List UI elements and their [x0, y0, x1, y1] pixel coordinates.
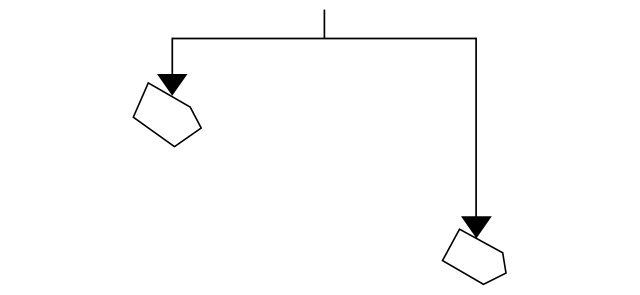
- arrowhead: right arrow: [461, 216, 492, 238]
- node: right pentagon (rotated off-page connector): [443, 229, 507, 284]
- wire: horizontal bus: [172, 38, 477, 40]
- wire: right drop: [475, 38, 477, 218]
- wire: left drop: [171, 38, 173, 76]
- arrowhead: left arrow: [157, 74, 188, 96]
- wire: top vertical stub: [323, 10, 325, 39]
- node: left pentagon (rotated off-page connector): [133, 83, 201, 147]
